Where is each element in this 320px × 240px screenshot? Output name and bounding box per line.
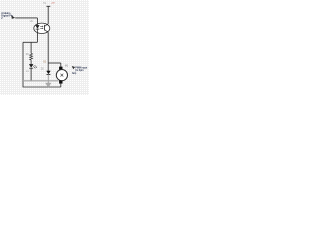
svg-text:M1: M1 xyxy=(65,65,69,68)
optocoupler U1 body (ellipse) xyxy=(34,23,50,33)
svg-text:PWM input: PWM input xyxy=(75,66,87,69)
wire: left vertical down to bottom rail xyxy=(22,42,24,87)
wire: cathode horizontal to left bus xyxy=(23,41,37,43)
node label: Arduino Digital Pin 2 annotation xyxy=(1,12,13,20)
wire: motor minus to bottom rail xyxy=(60,84,62,87)
wire: LED cathode drop xyxy=(36,34,38,43)
motor M1 top terminal xyxy=(59,67,62,70)
motor M1 body xyxy=(56,70,67,81)
optocoupler phototransistor xyxy=(45,24,49,33)
diode D1 (to ground) xyxy=(47,71,51,75)
ground symbol (stem, rail bar, arrowhead) xyxy=(23,75,59,88)
svg-text:5V: 5V xyxy=(43,3,46,5)
+5V supply symbol xyxy=(43,3,55,24)
optocoupler internal LED xyxy=(36,24,40,34)
motor M1 bottom terminal xyxy=(59,80,62,83)
wire: resistor to LED xyxy=(30,60,32,64)
resistor R1 (vertical zigzag) xyxy=(30,53,33,60)
PWM fan annotation arrow xyxy=(72,66,75,69)
optocoupler light arrows xyxy=(40,26,43,29)
wire: LED L1 to ground rail xyxy=(30,68,32,81)
wire: branch down into resistor column xyxy=(30,42,32,53)
wire: emitter down to ground/diode branch xyxy=(47,32,49,71)
grid background xyxy=(0,0,89,95)
svg-text:(to 4pin: (to 4pin xyxy=(75,69,84,72)
PWM fan annotation text xyxy=(72,66,87,75)
wire: emitter junction to motor plus xyxy=(48,62,61,64)
wire: drop into optocoupler LED anode xyxy=(36,18,38,24)
pin arrow (Arduino pin callout) xyxy=(11,16,15,19)
motor M1 cross mark xyxy=(61,74,64,77)
svg-text:fan): fan) xyxy=(72,73,76,75)
LED L1 emission arrows xyxy=(33,65,37,69)
LED L1 (indicator) xyxy=(29,64,33,68)
svg-text:+5V: +5V xyxy=(51,3,55,5)
wire: bottom return rail xyxy=(23,86,61,88)
wire: pin 2 to optocoupler anode (horizontal) xyxy=(15,17,37,19)
